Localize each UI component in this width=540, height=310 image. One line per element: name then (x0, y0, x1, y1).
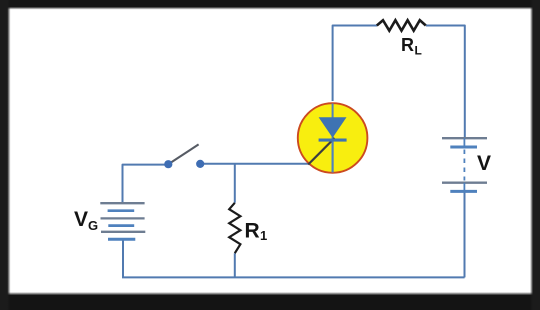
svg-text:V: V (74, 208, 88, 231)
svg-text:1: 1 (260, 228, 267, 243)
svg-text:G: G (88, 218, 98, 233)
svg-text:V: V (477, 152, 491, 175)
svg-text:R: R (245, 220, 260, 243)
svg-text:L: L (415, 44, 422, 58)
svg-text:R: R (401, 35, 414, 55)
